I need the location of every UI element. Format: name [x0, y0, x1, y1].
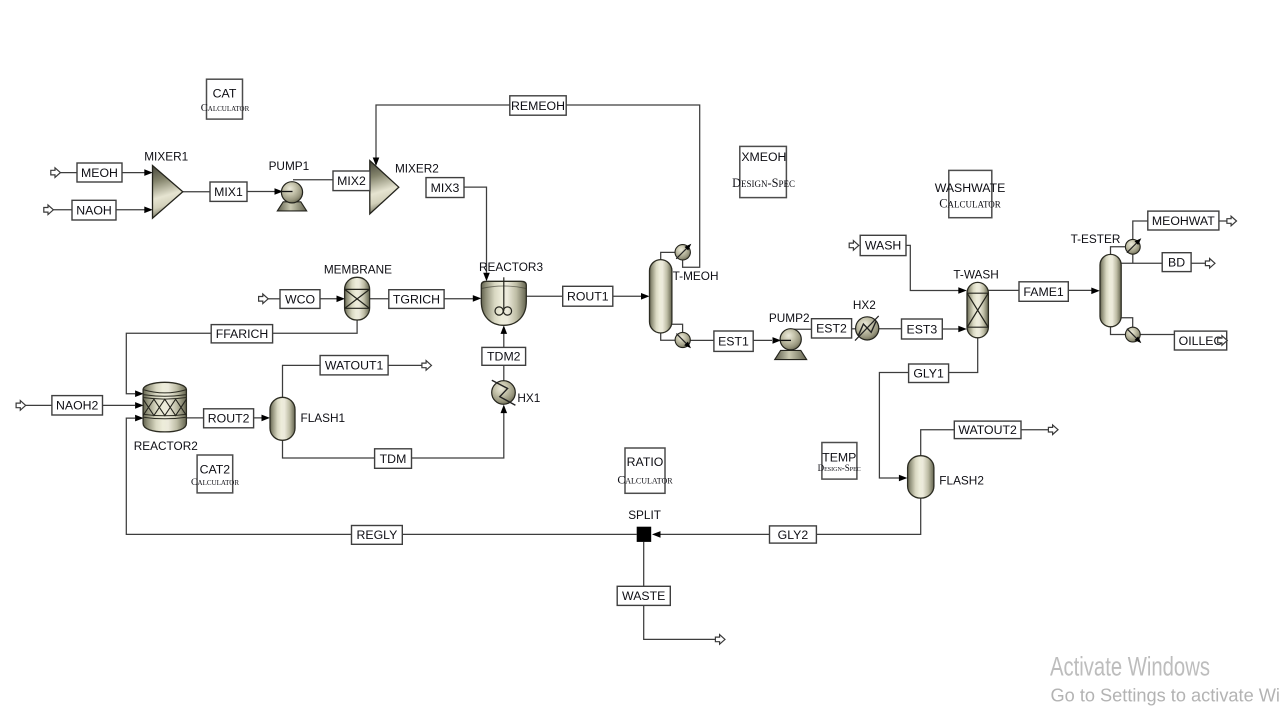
- svg-text:T-MEOH: T-MEOH: [673, 269, 719, 283]
- wire WATOUT1 from FLASH1: [283, 365, 423, 397]
- svg-text:PUMP1: PUMP1: [269, 159, 310, 173]
- heater HX2: [855, 316, 879, 341]
- svg-text:ROUT2: ROUT2: [208, 412, 250, 426]
- stream label REMEOH: [510, 96, 566, 115]
- svg-text:FAME1: FAME1: [1023, 285, 1063, 299]
- svg-text:CAT2: CAT2: [200, 462, 231, 476]
- arrowhead GLY1 into FLASH2: [899, 475, 908, 482]
- pump PUMP1: [277, 182, 306, 211]
- reboiler of T-MEOH: [675, 332, 691, 348]
- arrowhead TGRICH into REACTOR3: [473, 295, 482, 302]
- svg-text:MEOH: MEOH: [81, 166, 118, 180]
- outlet arrow WATOUT2: [1048, 425, 1058, 435]
- wire WCO feed: [268, 298, 280, 300]
- wire EST3 HX2 to T-WASH: [878, 328, 902, 330]
- reactor REACTOR2: [143, 382, 186, 432]
- wire MEOH to MIXER1: [122, 172, 145, 174]
- wire GLY2 FLASH2 to SPLIT: [660, 498, 921, 535]
- outlet arrow WATOUT1: [422, 361, 432, 371]
- wire TGRICH MEMBRANE to REACTOR3: [370, 298, 474, 300]
- svg-text:Calculator: Calculator: [191, 477, 239, 488]
- feed arrow WASH: [849, 241, 859, 251]
- outlet arrow OILLEC: [1218, 336, 1228, 346]
- stream label NAOH: [72, 200, 116, 220]
- svg-text:EST3: EST3: [907, 322, 938, 336]
- arrowhead FFARICH into REACTOR2: [135, 390, 144, 397]
- svg-text:TGRICH: TGRICH: [393, 292, 440, 306]
- wire REMEOH loop from T-MEOH condenser to MIXER2: [376, 105, 700, 267]
- membrane unit MEMBRANE: [345, 277, 370, 320]
- wire MEOH feed: [60, 172, 77, 174]
- svg-text:MIX3: MIX3: [431, 181, 460, 195]
- wire T-MEOH side to reboiler top: [672, 324, 683, 332]
- wire MIX1 from MIXER1: [183, 191, 211, 193]
- stream label MIX1: [210, 182, 247, 201]
- stream label EST2: [812, 319, 852, 338]
- wire GLY1 T-WASH to FLASH2: [879, 338, 977, 479]
- stream label EST1: [714, 331, 753, 351]
- svg-text:REGLY: REGLY: [357, 528, 398, 542]
- wire WASTE from SPLIT: [644, 542, 716, 640]
- calculator block CAT2: [191, 455, 239, 493]
- arrowhead NAOH2 into REACTOR2: [135, 402, 144, 409]
- svg-text:REACTOR3: REACTOR3: [479, 260, 543, 274]
- reactor REACTOR3: [481, 277, 526, 325]
- stream label ROUT1: [563, 286, 613, 306]
- wire MEOHWAT condenser to outlet: [1133, 221, 1227, 240]
- wire T-ESTER side to reboiler top: [1121, 318, 1133, 328]
- arrowhead FAME1 into T-ESTER: [1091, 288, 1100, 295]
- wire WATOUT2 from FLASH2: [921, 430, 1048, 456]
- svg-text:RATIO: RATIO: [627, 455, 664, 469]
- stream label WATOUT1: [320, 356, 388, 375]
- wire TDM FLASH1 to HX1: [283, 413, 504, 459]
- svg-text:REMEOH: REMEOH: [511, 99, 565, 113]
- arrowhead GLY2 into SPLIT: [652, 531, 661, 538]
- wire WASH to T-WASH: [906, 245, 959, 290]
- svg-text:XMEOH: XMEOH: [741, 150, 786, 164]
- stream label FAME1: [1019, 282, 1068, 302]
- arrowhead EST1 into PUMP2: [773, 337, 782, 344]
- svg-text:WASHWATE: WASHWATE: [935, 181, 1006, 195]
- svg-text:NAOH2: NAOH2: [56, 399, 99, 413]
- wire FAME1 T-WASH to T-ESTER: [988, 289, 1092, 291]
- design-spec block TEMP: [818, 443, 861, 480]
- svg-text:EST2: EST2: [816, 322, 847, 336]
- wire BD from T-ESTER: [1121, 262, 1205, 264]
- svg-text:MIXER1: MIXER1: [144, 149, 188, 163]
- svg-text:MIX1: MIX1: [214, 185, 243, 199]
- svg-text:WATOUT2: WATOUT2: [958, 423, 1017, 437]
- column T-MEOH: [650, 260, 672, 333]
- svg-text:FFARICH: FFARICH: [216, 327, 269, 341]
- svg-text:WASTE: WASTE: [622, 589, 665, 603]
- svg-text:Activate Windows: Activate Windows: [1050, 652, 1210, 682]
- arrowhead WCO into MEMBRANE: [337, 296, 346, 303]
- stream label TDM2: [482, 347, 526, 365]
- stream label FFARICH: [211, 325, 272, 343]
- svg-text:HX1: HX1: [517, 391, 540, 405]
- wire OILLEC reboiler to box: [1140, 334, 1174, 336]
- svg-text:SPLIT: SPLIT: [628, 508, 661, 522]
- svg-text:Design-Spec: Design-Spec: [818, 463, 861, 473]
- svg-text:GLY1: GLY1: [913, 367, 944, 381]
- svg-text:PUMP2: PUMP2: [769, 311, 810, 325]
- wire NAOH to MIXER1: [116, 209, 145, 211]
- svg-text:WASH: WASH: [865, 239, 901, 253]
- arrowhead REMEOH into MIXER2: [373, 158, 380, 167]
- mixer MIXER1: [153, 166, 183, 219]
- svg-text:NAOH: NAOH: [76, 204, 112, 218]
- column T-ESTER: [1100, 254, 1121, 326]
- arrowhead ROUT1 into T-MEOH: [641, 293, 650, 300]
- wire TDM2 HX1 to REACTOR3: [503, 333, 505, 382]
- svg-text:TDM: TDM: [380, 452, 407, 466]
- svg-text:Go to Settings to activate Win: Go to Settings to activate Win: [1051, 686, 1280, 706]
- svg-text:MEOHWAT: MEOHWAT: [1152, 214, 1215, 228]
- wire T-ESTER top to condenser: [1111, 247, 1126, 255]
- svg-text:GLY2: GLY2: [778, 528, 809, 542]
- arrowhead ROUT2 into FLASH1: [262, 415, 271, 422]
- svg-text:EST1: EST1: [718, 335, 749, 349]
- stream label ROUT2: [204, 409, 254, 428]
- splitter SPLIT: [637, 527, 652, 542]
- svg-text:REACTOR2: REACTOR2: [134, 439, 198, 453]
- stream label WATOUT2: [954, 421, 1021, 439]
- wire condenser drop to BD line: [1132, 254, 1134, 263]
- stream label OILLEC: [1174, 331, 1226, 350]
- stream label REGLY: [352, 526, 403, 545]
- wire WCO to MEMBRANE: [320, 298, 338, 300]
- svg-text:HX2: HX2: [853, 298, 876, 312]
- extraction column T-WASH: [967, 282, 988, 337]
- arrowhead TDM into HX1: [501, 405, 508, 414]
- svg-text:MIXER2: MIXER2: [395, 161, 439, 175]
- stream label MIX3: [426, 178, 464, 198]
- stream label WASH: [860, 235, 906, 255]
- wire REGLY SPLIT to REACTOR2: [126, 418, 636, 534]
- wire T-MEOH top to condenser: [661, 252, 675, 260]
- svg-text:MEMBRANE: MEMBRANE: [324, 263, 392, 277]
- feed arrow MEOH: [51, 168, 61, 178]
- flash drum FLASH2: [908, 456, 934, 498]
- svg-text:T-ESTER: T-ESTER: [1071, 232, 1121, 246]
- svg-text:WATOUT1: WATOUT1: [325, 359, 384, 373]
- wire FFARICH MEMBRANE to REACTOR2: [126, 320, 357, 394]
- arrowhead MEOH into MIXER1: [144, 169, 153, 176]
- feed arrow WCO: [259, 294, 269, 304]
- stream label MIX2: [333, 171, 370, 191]
- stream label BD: [1162, 253, 1191, 272]
- svg-text:FLASH1: FLASH1: [301, 411, 346, 425]
- arrowhead WASH into T-WASH: [958, 287, 967, 294]
- svg-text:Calculator: Calculator: [939, 197, 1001, 211]
- stream label WCO: [280, 290, 320, 309]
- wire EST2 PUMP2 to HX2: [793, 328, 812, 330]
- reboiler of T-ESTER: [1125, 327, 1141, 343]
- arrowhead NAOH into MIXER1: [144, 207, 153, 214]
- heater HX1: [492, 380, 516, 405]
- feed arrow NAOH2: [16, 401, 26, 411]
- svg-text:OILLEC: OILLEC: [1179, 334, 1223, 348]
- svg-text:WCO: WCO: [285, 292, 315, 306]
- wire EST2 box to HX2: [852, 328, 856, 330]
- stream label NAOH2: [52, 396, 103, 415]
- svg-text:FLASH2: FLASH2: [939, 473, 984, 487]
- wire ROUT2 REACTOR2 to FLASH1: [186, 417, 262, 419]
- arrowhead EST3 into T-WASH: [958, 326, 967, 333]
- wire PUMP1 to MIX2: [293, 179, 333, 181]
- svg-text:MIX2: MIX2: [337, 174, 366, 188]
- wire NAOH feed: [53, 209, 72, 211]
- design-spec block XMEOH: [732, 146, 795, 197]
- stream label MEOH: [77, 163, 122, 182]
- svg-text:ROUT1: ROUT1: [567, 290, 609, 304]
- arrowhead MIX3 into REACTOR3: [483, 273, 490, 282]
- condenser of T-ESTER: [1125, 238, 1141, 254]
- wire EST3 box to T-WASH: [942, 328, 959, 330]
- wire ROUT1 REACTOR3 to T-MEOH: [526, 295, 642, 297]
- wire NAOH2 feed: [26, 404, 52, 406]
- outlet arrow WASTE: [715, 635, 725, 645]
- outlet arrow MEOHWAT: [1227, 216, 1237, 226]
- wire EST1 reboiler to PUMP2: [690, 339, 772, 341]
- arrowhead REGLY into REACTOR2: [135, 415, 144, 422]
- svg-text:BD: BD: [1168, 255, 1185, 269]
- wire MIX1 to PUMP1: [247, 191, 281, 193]
- wire MIX3 to REACTOR3: [464, 187, 487, 273]
- feed arrow NAOH: [44, 205, 54, 215]
- calculator block RATIO: [617, 448, 673, 493]
- calculator block WASHWATE: [935, 170, 1006, 217]
- stream label GLY1: [909, 364, 949, 383]
- arrowhead MIX1 into PUMP1: [275, 188, 284, 195]
- svg-text:TDM2: TDM2: [487, 350, 521, 364]
- stream label TGRICH: [389, 290, 444, 309]
- arrowhead TDM2 into REACTOR3: [501, 325, 508, 334]
- pump PUMP2: [775, 329, 807, 360]
- mixer MIXER2: [370, 161, 399, 214]
- svg-text:Calculator: Calculator: [201, 103, 250, 114]
- calculator block CAT: [201, 79, 250, 119]
- svg-text:CAT: CAT: [213, 87, 237, 101]
- stream label TDM: [375, 449, 412, 469]
- wire T-MEOH bottoms to reboiler: [661, 333, 675, 341]
- svg-text:Design-Spec: Design-Spec: [732, 176, 795, 190]
- stream label MEOHWAT: [1148, 211, 1219, 230]
- condenser of T-MEOH: [675, 244, 691, 260]
- wire T-ESTER bottoms to reboiler: [1111, 326, 1126, 334]
- outlet arrow BD: [1205, 259, 1215, 269]
- svg-text:Calculator: Calculator: [617, 472, 673, 486]
- stream label EST3: [902, 319, 943, 339]
- stream label WASTE: [617, 586, 670, 605]
- stream label GLY2: [770, 526, 817, 543]
- svg-text:T-WASH: T-WASH: [953, 267, 998, 281]
- wire NAOH2 to REACTOR2: [103, 404, 136, 406]
- flash drum FLASH1: [270, 397, 295, 440]
